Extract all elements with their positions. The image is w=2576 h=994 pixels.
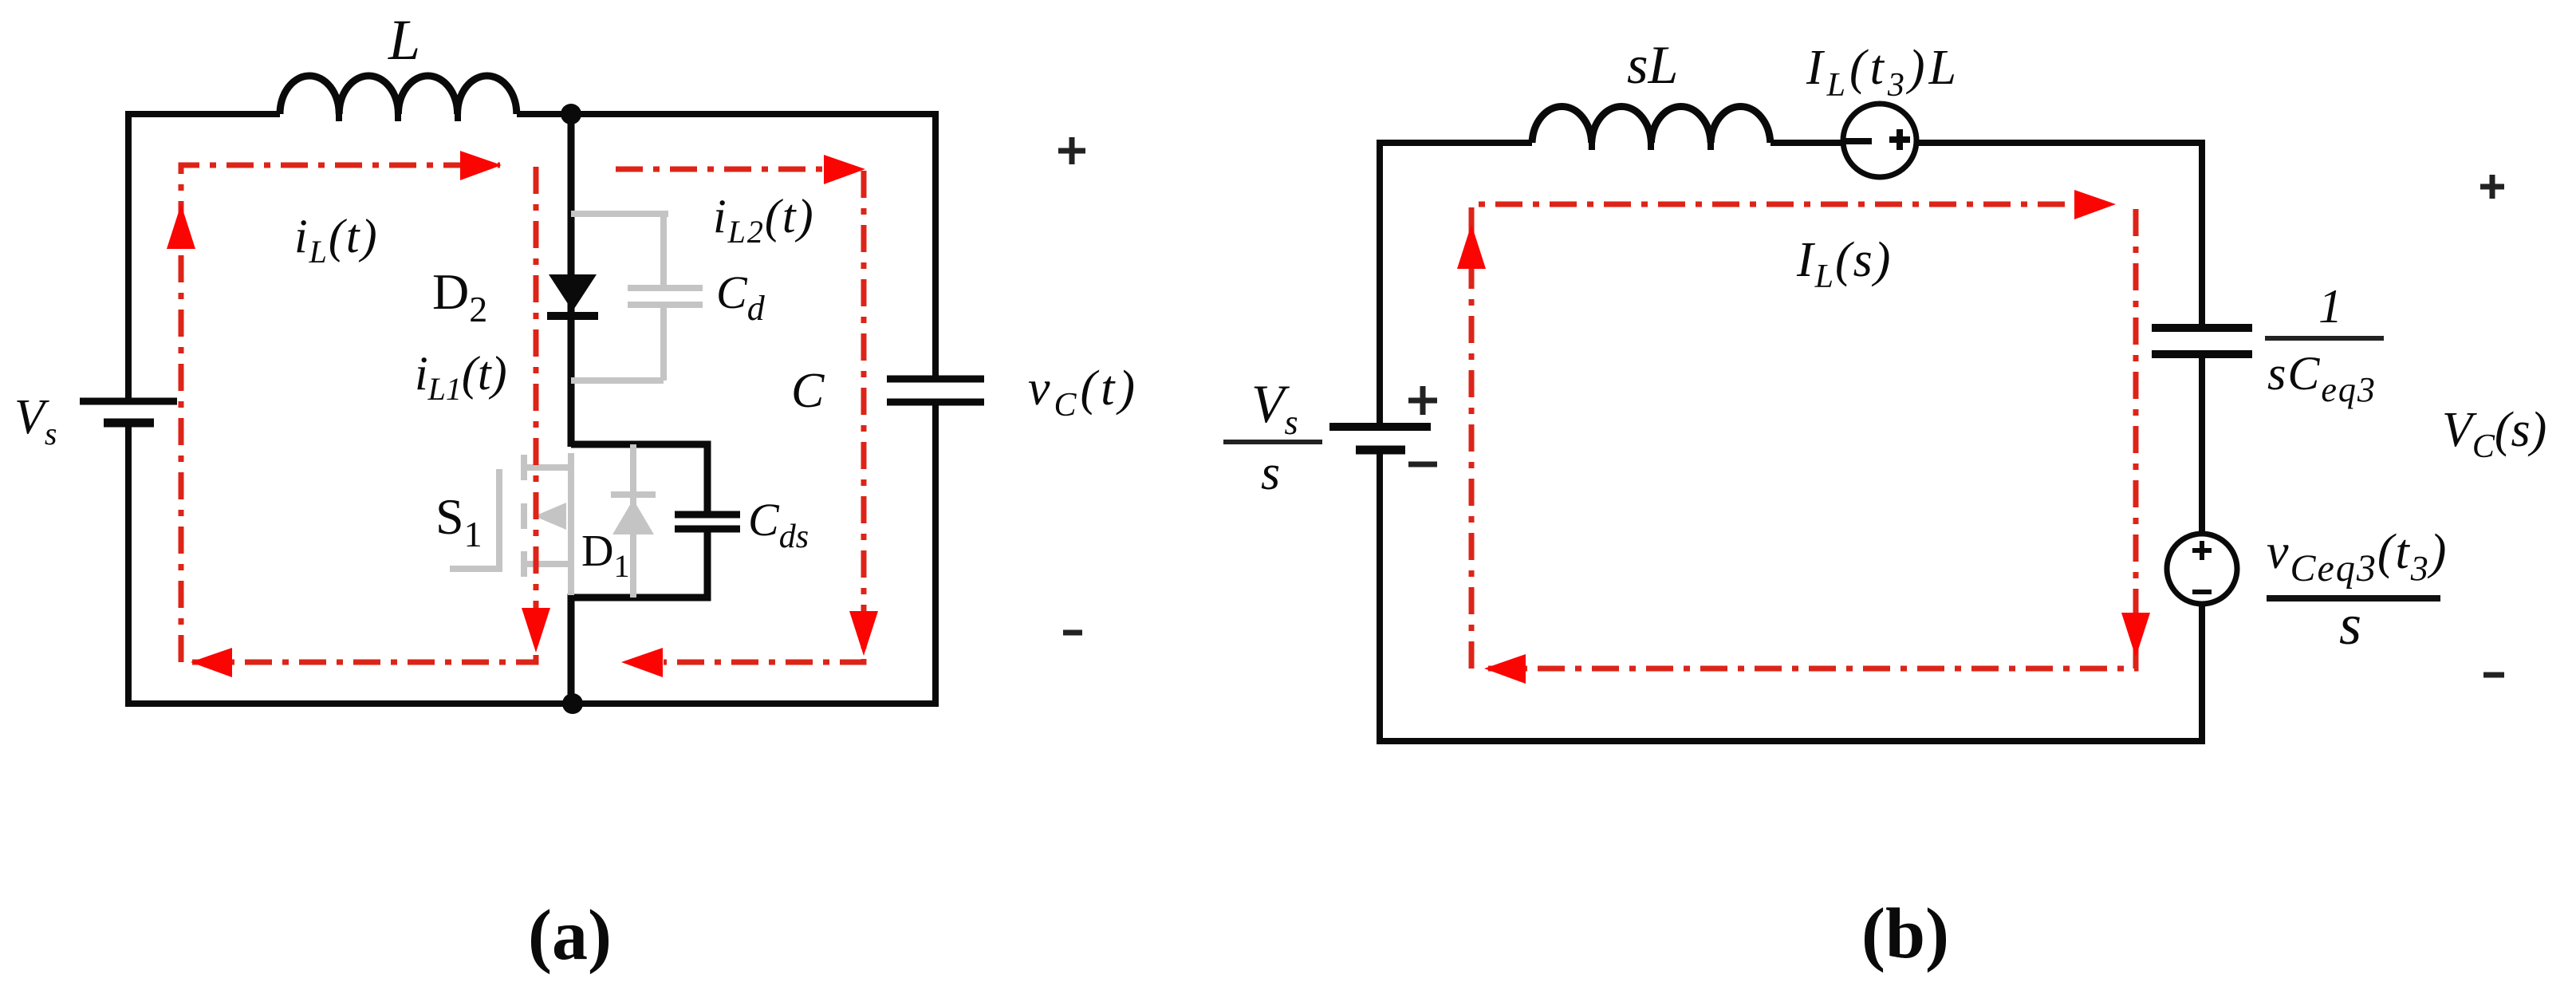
arrow loop-b right (2074, 190, 2116, 219)
transistor S1 body arrow (534, 503, 566, 530)
arrow loop1 up (167, 204, 195, 249)
label Vs/s fraction (1223, 373, 1322, 500)
minus sign output (a) (1063, 630, 1082, 636)
arrow loop1 left (191, 648, 232, 677)
arrow loop1 right (460, 151, 502, 180)
arrow loop1 down (522, 608, 550, 653)
arrow loop-b down (2121, 613, 2150, 657)
svg-text:s: s (1261, 446, 1280, 500)
svg-text:L: L (388, 8, 420, 72)
wire top-right and right upper segment (b) (1915, 143, 2202, 328)
wire top-right and right upper segment (a) (517, 114, 935, 379)
voltage source minus (2192, 590, 2212, 594)
svg-text:C: C (791, 364, 825, 418)
wire switch-box top and Cds upper branch (571, 444, 707, 515)
svg-text:iL(t): iL(t) (294, 210, 379, 270)
svg-text:(b): (b) (1861, 894, 1949, 973)
plus sign output (b) (2480, 175, 2504, 199)
wire left and top-left segment (a) (128, 114, 280, 401)
capacitor Cd (gray snubber) (571, 214, 703, 381)
wire D2 branch vertical (568, 114, 575, 447)
transistor S1 (gray MOSFET) (450, 453, 571, 595)
voltage source inner plus (1889, 136, 1910, 143)
inductor sL cusp ticks (1592, 132, 1711, 150)
diode D1 (gray body diode) (611, 444, 656, 598)
arrow loop2 right (824, 155, 865, 184)
svg-text:s: s (2339, 593, 2361, 657)
capacitor C (887, 379, 984, 402)
battery Vs/s (1329, 427, 1431, 450)
wire right lower, bottom and left lower segment (a) (128, 402, 935, 704)
red current loop 1 (iL) (181, 165, 536, 662)
svg-text:VC(s): VC(s) (2442, 403, 2546, 465)
svg-text:sL: sL (1627, 34, 1678, 95)
wire right lower, bottom and left lower segment (b) (1380, 450, 2202, 741)
node junction top (a) (561, 104, 581, 124)
arrow loop-b left (1484, 654, 1526, 684)
voltage source IL(t3)L circle (1843, 104, 1916, 177)
inductor L cusp ticks (339, 104, 458, 121)
capacitor 1/sCeq3 (2152, 328, 2252, 354)
label 1/sCeq3 fraction (2265, 280, 2384, 409)
voltage source vCeq3 circle (2167, 534, 2237, 604)
diode D1 triangle (612, 499, 654, 534)
red current loop 2 (iL2) (616, 169, 864, 662)
label vCeq3(t3)/s fraction (2267, 525, 2448, 657)
svg-text:1: 1 (2318, 280, 2342, 333)
plus sign output (a) (1058, 137, 1085, 164)
node junction bottom (a) (562, 693, 583, 714)
wire Cds lower branch, switch-box bottom and wire to bottom node (571, 529, 707, 704)
red current loop (b) IL(s) (1471, 204, 2136, 669)
capacitor Cds (675, 515, 740, 529)
svg-text:vC(t): vC(t) (1028, 361, 1139, 424)
svg-text:(a): (a) (528, 896, 612, 975)
arrow loop2 left (621, 648, 663, 677)
wire right vertical middle (b) (2199, 354, 2205, 535)
voltage source inner minus (1845, 138, 1872, 144)
inductor sL (1532, 106, 1771, 143)
minus sign output (b) (2483, 673, 2504, 678)
arrow loop-b up (1457, 224, 1486, 269)
arrow loop2 down (849, 611, 878, 656)
inductor L (280, 76, 517, 114)
wire left upper and top-left segment (b) (1380, 143, 1532, 427)
voltage source plus (2192, 541, 2212, 560)
svg-text:IL(s): IL(s) (1796, 233, 1892, 295)
battery minus sign (b) (1408, 462, 1437, 467)
wire between inductor and source (b) (1771, 140, 1845, 146)
battery Vs (80, 401, 177, 423)
diode D2 (547, 274, 598, 316)
battery plus sign (b) (1408, 386, 1437, 415)
